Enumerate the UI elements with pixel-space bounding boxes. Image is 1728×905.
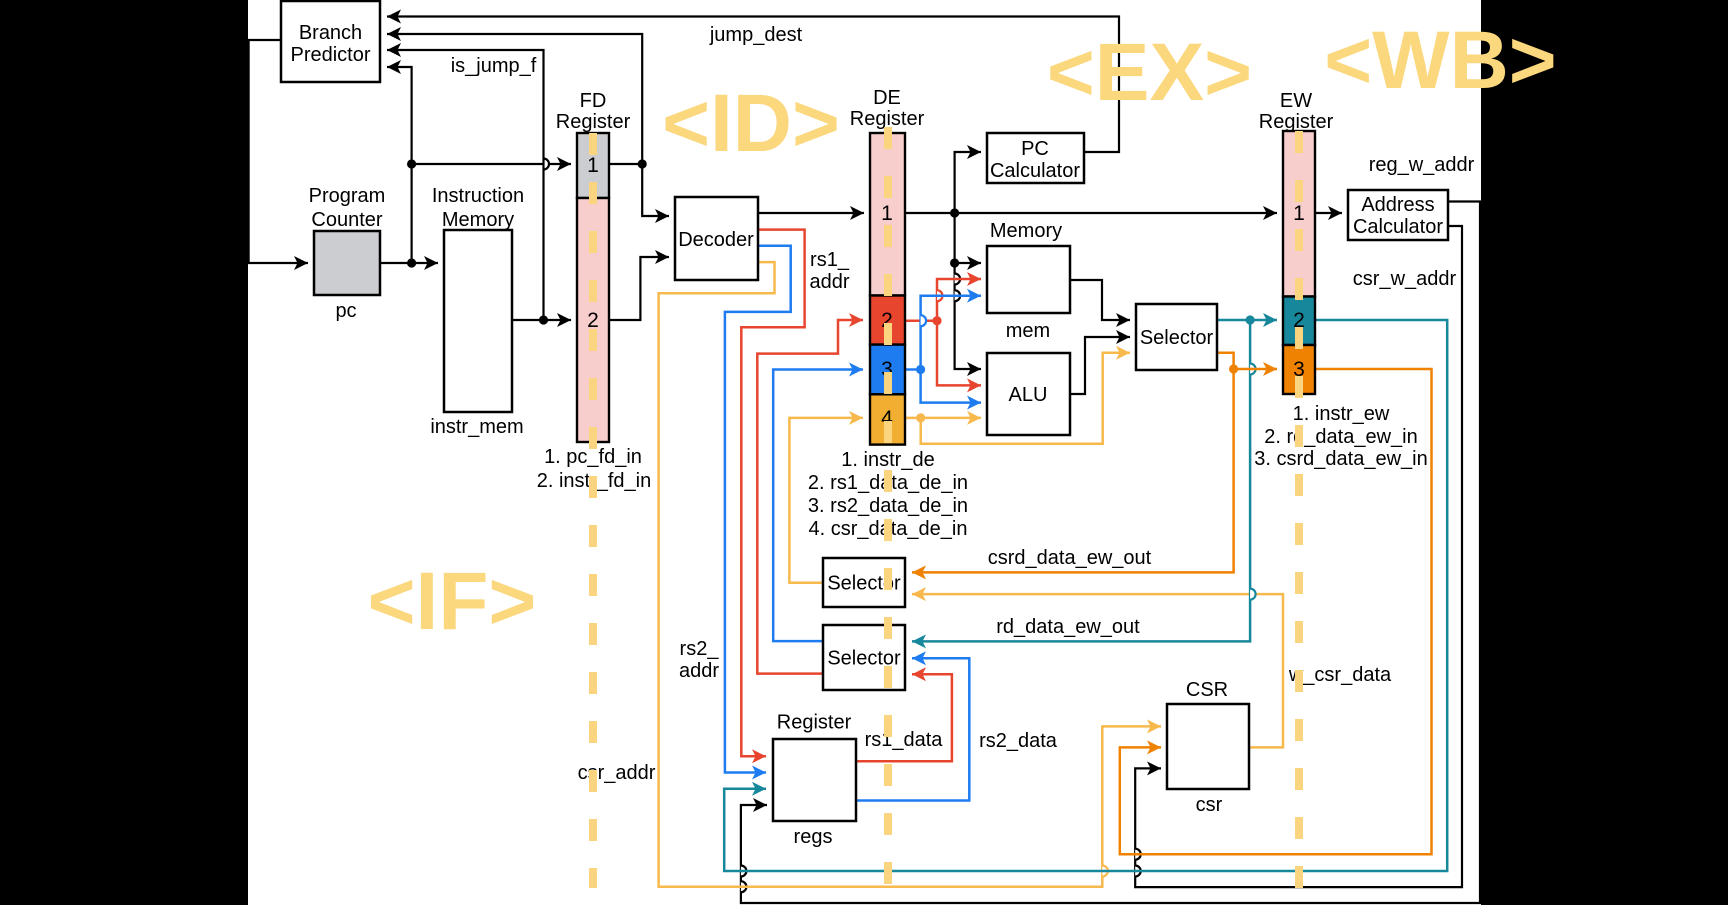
label rs1_data [865,729,944,751]
svg-text:2: 2 [587,309,599,332]
svg-text:<IF>: <IF> [368,556,537,647]
register FD [577,133,609,442]
wire fd1_to_decoder [642,164,669,216]
label rd_data_ew_out [996,616,1140,638]
label DE 4 [881,407,893,430]
box ALU [987,353,1070,435]
box Program Counter pc [314,231,380,295]
label Instruction Memory [432,185,524,231]
bump on de2_to_memory [937,290,943,301]
svg-text:1. pc_fd_in: 1. pc_fd_in [544,446,642,468]
wire pc_calc_to_bp [387,17,1119,153]
bumps on de1_to_alu [955,274,961,302]
label DE 2 [881,309,893,332]
label w_csr_data [1288,664,1392,686]
label DE Register [850,87,925,130]
wire is_jump_f [387,50,544,320]
wire jump_dest [387,34,642,164]
wire reg_w_addr_loop [741,202,1480,904]
wire pc_branch_up [387,67,416,263]
wire de1_to_memory [950,213,981,268]
svg-text:Selector: Selector [1140,327,1214,349]
svg-text:1: 1 [587,154,599,177]
label rs2_addr [679,638,719,682]
label EW 1 [1293,202,1305,225]
label EW Register [1259,90,1334,133]
svg-text:mem: mem [1006,320,1050,342]
wire de4_to_alu [921,417,981,420]
box Selector EX [1136,304,1217,370]
svg-text:3. csrd_data_ew_in: 3. csrd_data_ew_in [1254,448,1427,470]
box Address Calculator [1348,190,1448,240]
wire de2_to_alu [937,321,981,386]
label EW 2 [1293,309,1305,332]
wire rs1_data [856,674,952,761]
wire de3_out [905,365,925,374]
svg-text:1: 1 [1293,202,1305,225]
wire csr_addr [659,262,1161,887]
svg-text:rs1_: rs1_ [810,249,850,271]
wire sel2_to_de3 [773,370,863,642]
svg-text:instr_mem: instr_mem [430,416,523,438]
svg-text:reg_w_addr: reg_w_addr [1369,154,1475,176]
svg-text:w_csr_data: w_csr_data [1288,664,1392,686]
wire de1_to_alu [955,263,981,369]
wire rd_data_ew_out [912,320,1250,641]
svg-text:Register: Register [777,712,852,734]
stage label WB [1324,15,1556,106]
wire de2_to_memory [937,279,981,321]
svg-text:csr: csr [1196,794,1223,816]
svg-text:<ID>: <ID> [662,78,840,169]
label csrd_data_ew_out [988,547,1152,569]
svg-text:1: 1 [881,202,893,225]
svg-text:pc: pc [335,300,356,322]
svg-text:FD: FD [580,90,607,112]
label mem [1006,320,1050,342]
label DE 1 [881,202,893,225]
register EW [1283,131,1315,394]
svg-text:is_jump_f: is_jump_f [451,55,537,77]
label pc [335,300,356,322]
svg-text:csr_w_addr: csr_w_addr [1353,268,1457,290]
wire selector_to_ew2 [1217,315,1277,324]
label csr_addr [578,762,656,784]
bumps on csr_w_addr_loop [1135,849,1141,877]
svg-text:Register: Register [556,111,631,133]
svg-text:<WB>: <WB> [1324,15,1556,106]
svg-text:ALU: ALU [1009,384,1048,406]
box CSR [1167,704,1249,789]
wire bp_to_pc [249,40,308,263]
wire memory_to_selector [1070,280,1130,320]
label EW 3 [1293,358,1305,381]
register DE [870,133,905,445]
bump on is_jump_f wire [544,159,550,170]
box Branch Predictor [281,1,380,82]
bumps on rd_data_ew_out [1250,364,1256,600]
wire fd1_out [609,159,647,168]
bump on de3_to_memory [921,315,927,326]
label reg_w_addr [1369,154,1475,176]
label Register [777,712,852,734]
svg-text:rs2_: rs2_ [680,638,720,660]
box Decoder [675,197,758,280]
box Instruction Memory [444,230,512,412]
wire sel1_to_de4 [789,418,863,583]
svg-text:Program: Program [309,185,386,207]
label FD 2 [587,309,599,332]
svg-text:Memory: Memory [442,209,514,231]
wire pc_to_fd1 [412,163,571,165]
wire w_csr_data [912,594,1283,747]
svg-text:Decoder: Decoder [678,229,754,251]
wire csr_w_addr_loop [1135,226,1462,887]
wire ew2_to_regs [724,320,1447,871]
wire de4_to_selector [921,353,1130,444]
svg-text:CSR: CSR [1186,679,1228,701]
svg-text:2. rd_data_ew_in: 2. rd_data_ew_in [1264,426,1417,448]
label Program Counter [309,185,386,231]
label jump_dest [709,24,803,46]
wire de1_to_pc_calc [955,152,981,213]
stage divider IF/ID [589,133,597,888]
label DE legend [808,449,968,540]
svg-text:rd_data_ew_out: rd_data_ew_out [996,616,1140,638]
bumps on reg_w_addr_loop [741,866,747,893]
box PC Calculator [987,133,1084,183]
svg-text:regs: regs [794,826,833,848]
svg-text:Register: Register [1259,111,1334,133]
wire rs1_addr [741,230,804,757]
wire ew1_to_addr_calc [1315,212,1342,214]
svg-text:<EX>: <EX> [1047,27,1252,118]
label Memory [990,220,1062,242]
label DE 3 [881,358,893,381]
svg-text:Memory: Memory [990,220,1062,242]
svg-text:csrd_data_ew_out: csrd_data_ew_out [988,547,1152,569]
svg-text:Register: Register [850,108,925,130]
wire selector_to_ew3 [1217,353,1277,374]
svg-text:Branch: Branch [299,22,362,44]
svg-text:Predictor: Predictor [290,44,370,66]
label CSR [1186,679,1228,701]
stage divider ID/EX [884,127,892,888]
box Register regs [773,739,856,821]
label is_jump_f [451,55,537,77]
svg-text:1. instr_de: 1. instr_de [841,449,934,471]
wire de4_out [905,413,925,422]
wire instr_mem_to_fd2 [512,315,571,324]
wire rs2_data [856,658,969,800]
svg-text:3. rs2_data_de_in: 3. rs2_data_de_in [808,495,968,517]
svg-text:rs1_data: rs1_data [865,729,944,751]
wire csrd_data_ew_out [912,369,1234,572]
wire alu_to_selector [1070,337,1130,394]
svg-text:Instruction: Instruction [432,185,524,207]
box Selector regs-side [823,625,905,690]
label EW legend [1254,403,1427,470]
wire de3_to_alu [921,370,981,403]
wire rs2_addr [725,246,791,773]
box Memory [987,246,1070,313]
svg-text:jump_dest: jump_dest [709,24,803,46]
stage label ID [662,78,840,169]
label csr [1196,794,1223,816]
label FD Register [556,90,631,133]
svg-text:rs2_data: rs2_data [979,730,1058,752]
wire de3_to_memory [921,296,981,370]
svg-text:Calculator: Calculator [1353,216,1443,238]
label FD 1 [587,154,599,177]
svg-text:PC: PC [1021,138,1049,160]
label regs [794,826,833,848]
wire ew3_to_csr [1120,369,1432,854]
wire decoder_to_de1 [758,212,864,214]
svg-text:Calculator: Calculator [990,160,1080,182]
svg-text:1. instr_ew: 1. instr_ew [1293,403,1390,425]
svg-text:addr: addr [679,660,719,682]
svg-text:Counter: Counter [311,209,382,231]
svg-text:EW: EW [1280,90,1312,112]
svg-text:DE: DE [873,87,901,109]
stage label EX [1047,27,1252,118]
wire fd2_to_decoder [609,257,669,320]
svg-text:Address: Address [1361,194,1434,216]
stage divider EX/WB [1295,131,1303,888]
label FD legend [537,446,652,492]
wire de2_out [905,316,942,325]
stage label IF [368,556,537,647]
svg-text:addr: addr [809,271,849,293]
bump on csr_addr [1102,866,1108,877]
label rs2_data [979,730,1058,752]
box Selector CSR-side [823,558,905,607]
label instr_mem [430,416,523,438]
label csr_w_addr [1353,268,1457,290]
wire sel2_to_de2 [757,320,863,674]
wire de1_to_ew1 [905,208,1277,217]
label rs1_addr [809,249,849,293]
wire pc_to_instr_mem [380,258,438,267]
